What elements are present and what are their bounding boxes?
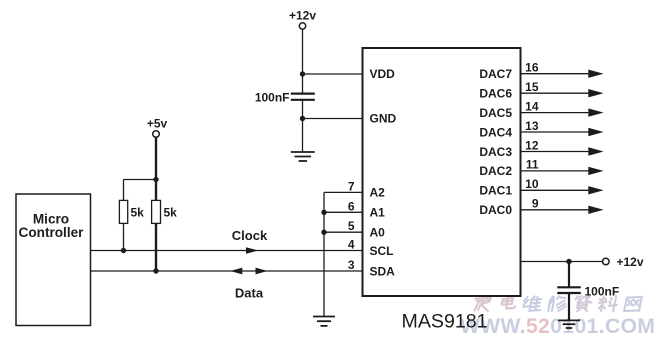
svg-text:Clock: Clock xyxy=(232,228,268,243)
svg-text:100nF: 100nF xyxy=(255,91,290,105)
svg-text:A2: A2 xyxy=(370,186,386,200)
svg-text:Micro: Micro xyxy=(33,211,69,226)
svg-text:DAC2: DAC2 xyxy=(479,164,512,178)
svg-text:SDA: SDA xyxy=(370,264,396,278)
svg-text:DAC1: DAC1 xyxy=(479,184,512,198)
svg-text:6: 6 xyxy=(348,199,355,213)
svg-text:5k: 5k xyxy=(131,206,145,220)
svg-text:GND: GND xyxy=(370,112,397,126)
svg-text:+12v: +12v xyxy=(617,255,644,269)
svg-text:Data: Data xyxy=(235,286,264,301)
svg-text:DAC4: DAC4 xyxy=(479,125,512,139)
svg-text:DAC7: DAC7 xyxy=(479,67,512,81)
svg-text:+5v: +5v xyxy=(147,117,168,131)
svg-text:SCL: SCL xyxy=(370,244,394,258)
svg-text:DAC0: DAC0 xyxy=(479,203,512,217)
svg-text:5: 5 xyxy=(348,219,355,233)
svg-text:15: 15 xyxy=(525,80,539,94)
svg-text:Controller: Controller xyxy=(19,225,85,240)
svg-text:12: 12 xyxy=(525,138,539,152)
svg-text:4: 4 xyxy=(348,238,355,252)
svg-text:16: 16 xyxy=(525,61,539,75)
svg-text:DAC5: DAC5 xyxy=(479,106,512,120)
svg-text:A0: A0 xyxy=(370,225,386,239)
svg-text:A1: A1 xyxy=(370,206,386,220)
svg-text:VDD: VDD xyxy=(370,67,396,81)
svg-text:3: 3 xyxy=(348,258,355,272)
svg-text:+12v: +12v xyxy=(289,9,316,23)
svg-text:MAS9181: MAS9181 xyxy=(402,311,488,333)
svg-text:DAC6: DAC6 xyxy=(479,87,512,101)
svg-text:13: 13 xyxy=(525,119,539,133)
svg-text:9: 9 xyxy=(532,197,539,211)
svg-text:10: 10 xyxy=(525,177,539,191)
svg-text:5k: 5k xyxy=(164,206,178,220)
svg-text:100nF: 100nF xyxy=(585,284,620,298)
svg-text:11: 11 xyxy=(526,158,539,172)
svg-text:7: 7 xyxy=(348,179,355,193)
svg-text:DAC3: DAC3 xyxy=(479,145,512,159)
svg-text:14: 14 xyxy=(525,99,539,113)
